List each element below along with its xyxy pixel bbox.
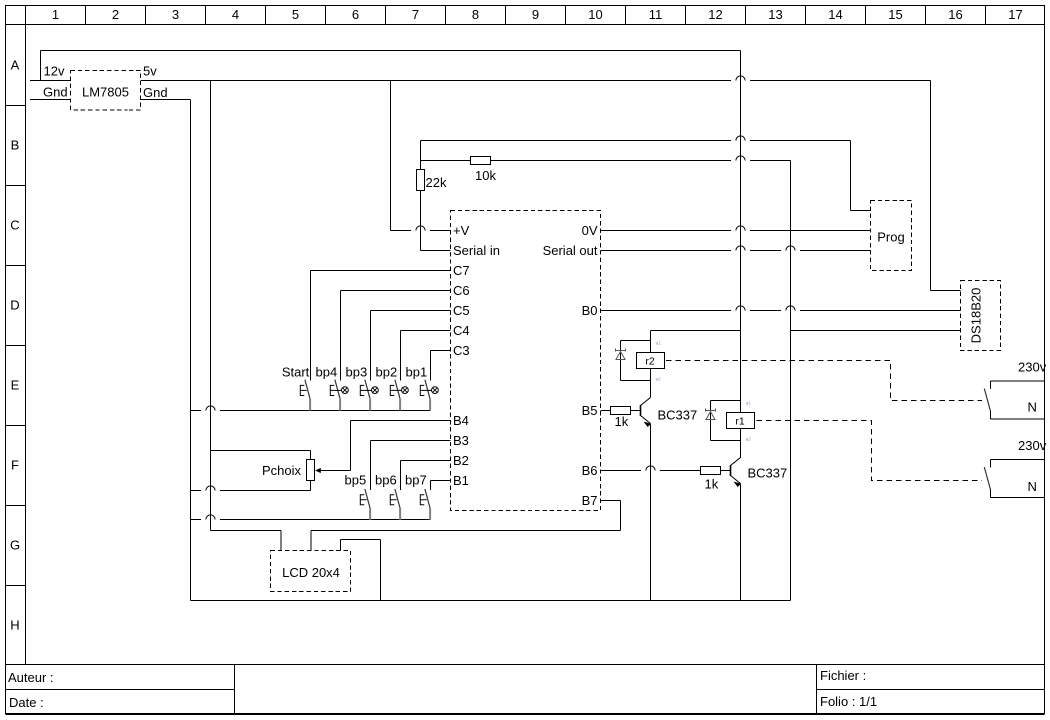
svg-text:Pchoix: Pchoix <box>262 463 302 478</box>
svg-text:4: 4 <box>232 7 239 22</box>
svg-text:1k: 1k <box>615 414 629 429</box>
svg-text:B0: B0 <box>582 303 598 318</box>
wire B2 drop to bp6 <box>400 461 402 491</box>
wire r1 diode bottom <box>711 440 741 442</box>
resistor 1k (Q2 base) <box>701 467 721 475</box>
pin label C5 <box>453 303 470 318</box>
svg-text:Serial in: Serial in <box>453 243 500 258</box>
wire C5 <box>371 310 451 312</box>
resistor 1k (Q1 base) <box>611 407 631 415</box>
svg-text:C4: C4 <box>453 323 470 338</box>
svg-text:230v: 230v <box>1018 360 1047 375</box>
wire B3 <box>371 440 451 442</box>
label LCD 20x4 <box>282 565 340 580</box>
wire LCD gnd link <box>341 539 381 541</box>
svg-text:BC337: BC337 <box>658 408 698 423</box>
svg-text:Fichier :: Fichier : <box>820 668 866 683</box>
svg-text:B4: B4 <box>453 413 469 428</box>
pin label B1 <box>453 473 469 488</box>
svg-text:B2: B2 <box>453 453 469 468</box>
wire jack tip to Prog <box>851 210 871 212</box>
wire 0V to Prog hop <box>736 226 745 231</box>
pin label 0V <box>582 223 598 238</box>
display LCD 20x4 <box>271 551 351 592</box>
wire B4 <box>351 420 451 422</box>
label bp4 <box>316 365 338 380</box>
wire potentiometer top lead <box>310 451 312 460</box>
wire r1 diode top <box>711 400 741 402</box>
wire relay r2 control link (dashed) <box>666 361 982 401</box>
label 1k (Q2) <box>705 477 719 492</box>
push button bp3 <box>360 380 378 411</box>
svg-text:B1: B1 <box>453 473 469 488</box>
svg-text:C: C <box>10 218 19 233</box>
svg-text:a1: a1 <box>746 401 752 406</box>
wire C7 <box>311 270 451 272</box>
svg-text:6: 6 <box>352 7 359 22</box>
svg-text:16: 16 <box>948 7 962 22</box>
wire 5v to potentiometer <box>211 450 311 452</box>
wire potentiometer bottom lead <box>310 481 312 491</box>
wire +V pin <box>391 230 451 232</box>
wire C7 drop to Start <box>310 271 312 381</box>
relay contact output 2 (r1) <box>984 460 1044 498</box>
svg-text:bp1: bp1 <box>406 365 428 380</box>
pin label B7 <box>582 493 598 508</box>
wire 1k to Q2 base <box>721 470 731 472</box>
wire B7 <box>601 500 621 502</box>
wire 5v into DS18B20 <box>931 290 961 292</box>
wire B0 to DS18B20 <box>601 310 961 312</box>
resistor 22k <box>417 170 425 191</box>
svg-text:r1: r1 <box>735 416 744 428</box>
label 230v output1 <box>1018 360 1047 375</box>
wire potentiometer to gnd <box>191 490 311 492</box>
wire r2 diode branch <box>620 341 622 381</box>
label N output1 <box>1028 400 1037 415</box>
svg-text:10: 10 <box>588 7 602 22</box>
svg-text:bp2: bp2 <box>376 365 398 380</box>
wire Gnd left vertical <box>190 100 192 601</box>
svg-text:5: 5 <box>292 7 299 22</box>
wire B5 to 1k <box>601 410 611 412</box>
push button bp5 <box>360 489 370 520</box>
svg-text:1k: 1k <box>705 477 719 492</box>
wire 5v rail <box>141 80 931 82</box>
label DS18B20 <box>969 288 984 344</box>
wire 10k to gnd riser <box>491 160 791 162</box>
wire button rail bottom hop <box>206 515 215 520</box>
temperature sensor DS18B20 <box>961 281 1001 351</box>
label 1k (Q1) <box>615 414 629 429</box>
pin label +V <box>453 223 470 238</box>
wire 5v rail hop <box>736 76 745 81</box>
wire Gnd to DS18B20 <box>791 330 961 332</box>
wire C4 drop to bp2 <box>400 331 402 381</box>
pin label C6 <box>453 283 470 298</box>
pin label C3 <box>453 343 470 358</box>
wire 0V to Prog <box>601 230 871 232</box>
label Pchoix <box>262 463 302 478</box>
wire Gnd input <box>30 99 71 101</box>
svg-text:Serial out: Serial out <box>543 243 598 258</box>
label N output2 <box>1028 479 1037 494</box>
svg-text:12: 12 <box>708 7 722 22</box>
wire r2 a1 lead <box>650 331 652 353</box>
wire r2 coil to 12v rail <box>651 330 741 332</box>
wire C3 <box>431 350 451 352</box>
svg-text:bp7: bp7 <box>405 473 427 488</box>
programming connector Prog <box>871 201 912 271</box>
svg-text:G: G <box>10 538 20 553</box>
svg-text:DS18B20: DS18B20 <box>969 288 984 344</box>
svg-text:13: 13 <box>768 7 782 22</box>
svg-text:B3: B3 <box>453 433 469 448</box>
relay contact output 1 (r2) <box>984 381 1044 419</box>
wire LCD gnd lead <box>340 540 342 551</box>
wire relay r1 control link (dashed) <box>757 421 983 481</box>
wire Gnd from regulator <box>141 99 191 101</box>
svg-text:Auteur :: Auteur : <box>8 670 54 685</box>
wire 12v top rail <box>41 50 741 52</box>
push button bp6 <box>390 489 400 520</box>
svg-text:C7: C7 <box>453 263 470 278</box>
wire 10k to gnd riser hop <box>736 156 745 161</box>
wire C5 drop to bp3 <box>370 311 372 381</box>
label 230v output2 <box>1018 438 1047 453</box>
pin label B0 <box>582 303 598 318</box>
label LM7805 <box>82 85 129 100</box>
svg-text:Gnd: Gnd <box>43 85 68 100</box>
svg-text:15: 15 <box>888 7 902 22</box>
wire B7 down <box>620 501 622 531</box>
pin label B4 <box>453 413 469 428</box>
label r2 pin a2 <box>656 376 662 381</box>
svg-text:H: H <box>10 618 19 633</box>
svg-text:14: 14 <box>828 7 842 22</box>
push button bp2 <box>390 380 408 411</box>
microcontroller U1 (PICAXE) <box>451 211 601 511</box>
wire 1k to Q1 base <box>631 410 641 412</box>
wire jack tip net hop <box>736 136 745 141</box>
svg-text:5v: 5v <box>143 64 157 79</box>
svg-text:N: N <box>1028 400 1037 415</box>
transistor Q1 BC337 <box>641 398 651 427</box>
pin label B6 <box>582 463 598 478</box>
wire 22k to Serial in <box>420 191 422 251</box>
svg-text:Date :: Date : <box>9 695 44 710</box>
wire potentiometer wiper <box>317 470 351 472</box>
label Gnd left-in <box>43 85 68 100</box>
wire LCD B7 drop <box>310 531 312 551</box>
svg-text:10k: 10k <box>475 168 496 183</box>
svg-text:B: B <box>11 138 20 153</box>
svg-text:bp6: bp6 <box>375 473 397 488</box>
wire Q1 emitter to gnd <box>650 424 652 601</box>
label bp2 <box>376 365 398 380</box>
label r1 <box>735 416 744 428</box>
wire gnd bottom rail <box>191 600 791 602</box>
wire r1 diode branch <box>710 401 712 441</box>
svg-text:22k: 22k <box>426 175 447 190</box>
label bp1 <box>406 365 428 380</box>
push button bp1 <box>420 380 438 411</box>
label 22k <box>426 175 447 190</box>
label r2 <box>645 356 654 368</box>
wire Serial out to Prog <box>601 250 871 252</box>
svg-text:LCD 20x4: LCD 20x4 <box>282 565 340 580</box>
wire jack tip drop <box>850 141 852 211</box>
svg-text:bp3: bp3 <box>346 365 368 380</box>
svg-text:230v: 230v <box>1018 438 1047 453</box>
transistor Q2 BC337 <box>731 458 741 487</box>
wire B0 to DS18B20 hop <box>736 306 795 311</box>
wire B1 <box>431 480 451 482</box>
svg-text:a2: a2 <box>746 437 752 442</box>
svg-text:B6: B6 <box>582 463 598 478</box>
wire jack tip net <box>421 140 851 142</box>
wire 5v left vertical <box>210 81 212 531</box>
relay coil r1 <box>727 413 755 429</box>
svg-text:17: 17 <box>1008 7 1022 22</box>
svg-text:0V: 0V <box>582 223 598 238</box>
svg-text:A: A <box>11 58 20 73</box>
pin label C7 <box>453 263 470 278</box>
wire B1 drop to bp7 <box>430 481 432 491</box>
wire B6 to 1k hop <box>646 466 655 471</box>
wire LCD 5v drop <box>280 531 282 551</box>
svg-text:Gnd: Gnd <box>143 85 168 100</box>
wire jack to 22k <box>420 141 422 170</box>
wire B6 to 1k <box>601 470 701 472</box>
svg-text:3: 3 <box>172 7 179 22</box>
diode D1 (across r2) <box>616 349 626 360</box>
pin label C4 <box>453 323 470 338</box>
label 5v <box>143 64 157 79</box>
wire 12v input <box>30 80 71 82</box>
wire 5v branch to +V <box>390 81 392 231</box>
potentiometer Pchoix wiper arrow <box>315 468 321 473</box>
svg-text:12v: 12v <box>44 64 65 79</box>
svg-text:B7: B7 <box>582 493 598 508</box>
label bp6 <box>375 473 397 488</box>
wire 5v to LCD <box>211 530 282 532</box>
svg-text:r2: r2 <box>645 356 654 368</box>
svg-text:B5: B5 <box>582 403 598 418</box>
svg-text:2: 2 <box>112 7 119 22</box>
label Gnd right-out <box>143 85 168 100</box>
svg-text:bp4: bp4 <box>316 365 338 380</box>
push button bp4 <box>330 380 348 411</box>
svg-text:D: D <box>10 298 19 313</box>
wire C3 drop to bp1 <box>430 351 432 381</box>
svg-text:E: E <box>11 378 20 393</box>
label BC337 (Q1) <box>658 408 698 423</box>
wire C6 <box>341 290 451 292</box>
svg-text:9: 9 <box>532 7 539 22</box>
svg-text:+V: +V <box>453 223 470 238</box>
diode D2 (across r1) <box>706 409 716 420</box>
label r1 pin a1 <box>746 401 752 406</box>
wire Serial in pin <box>421 250 451 252</box>
label bp5 <box>345 473 367 488</box>
relay coil r2 <box>637 353 665 369</box>
svg-text:BC337: BC337 <box>748 466 788 481</box>
label 12v <box>44 64 65 79</box>
label Start <box>282 365 310 380</box>
wire r2 a2 lead <box>650 369 652 398</box>
pin label B2 <box>453 453 469 468</box>
wire Q2 emitter to gnd <box>740 484 742 601</box>
pin label B5 <box>582 403 598 418</box>
svg-text:8: 8 <box>472 7 479 22</box>
pin label B3 <box>453 433 469 448</box>
wire Gnd right vertical <box>790 161 792 601</box>
wire B2 <box>401 460 451 462</box>
svg-text:N: N <box>1028 479 1037 494</box>
wire r2 diode top <box>621 340 651 342</box>
label 10k <box>475 168 496 183</box>
svg-text:F: F <box>11 458 19 473</box>
wire 5v drop to DS18B20 <box>930 81 932 291</box>
pin label Serial in <box>453 243 500 258</box>
label Prog <box>877 230 904 245</box>
svg-text:LM7805: LM7805 <box>82 85 129 100</box>
wire 12v vertical rail <box>740 51 742 413</box>
label bp7 <box>405 473 427 488</box>
wire r1 a2 lead <box>740 429 742 459</box>
svg-text:a2: a2 <box>656 376 662 381</box>
svg-text:Folio : 1/1: Folio : 1/1 <box>820 694 877 709</box>
wire LCD gnd drop <box>380 540 382 601</box>
wire +V pin hop <box>416 226 425 231</box>
wire C4 <box>401 330 451 332</box>
wire C6 drop to bp4 <box>340 291 342 381</box>
wire button rail bottom <box>191 519 431 521</box>
label BC337 (Q2) <box>748 466 788 481</box>
svg-text:7: 7 <box>412 7 419 22</box>
svg-text:Start: Start <box>282 365 310 380</box>
push button bp7 <box>420 489 430 520</box>
svg-text:11: 11 <box>649 7 663 22</box>
wire r2 diode bottom <box>621 380 651 382</box>
wire potentiometer to gnd hop <box>206 486 215 491</box>
svg-text:1: 1 <box>52 7 59 22</box>
resistor 10k <box>471 157 491 165</box>
pin label Serial out <box>543 243 598 258</box>
label r2 pin a1 <box>656 341 662 346</box>
push button Start <box>300 380 310 411</box>
svg-text:C6: C6 <box>453 283 470 298</box>
wire 12v riser <box>40 51 42 81</box>
potentiometer Pchoix body <box>307 460 315 481</box>
voltage regulator LM7805 <box>71 71 141 111</box>
label r1 pin a2 <box>746 437 752 442</box>
svg-text:bp5: bp5 <box>345 473 367 488</box>
svg-text:C3: C3 <box>453 343 470 358</box>
wire B7 to LCD <box>311 530 621 532</box>
wire button rail top <box>191 410 431 412</box>
svg-text:C5: C5 <box>453 303 470 318</box>
svg-text:a1: a1 <box>656 341 662 346</box>
wire B3 drop to bp5 <box>370 441 372 491</box>
wire Serial out to Prog hop <box>736 246 795 251</box>
wire B4 drop to wiper <box>350 421 352 471</box>
label bp3 <box>346 365 368 380</box>
svg-text:Prog: Prog <box>877 230 904 245</box>
wire 22k node to 10k <box>421 160 471 162</box>
wire button rail top hop <box>206 406 215 411</box>
